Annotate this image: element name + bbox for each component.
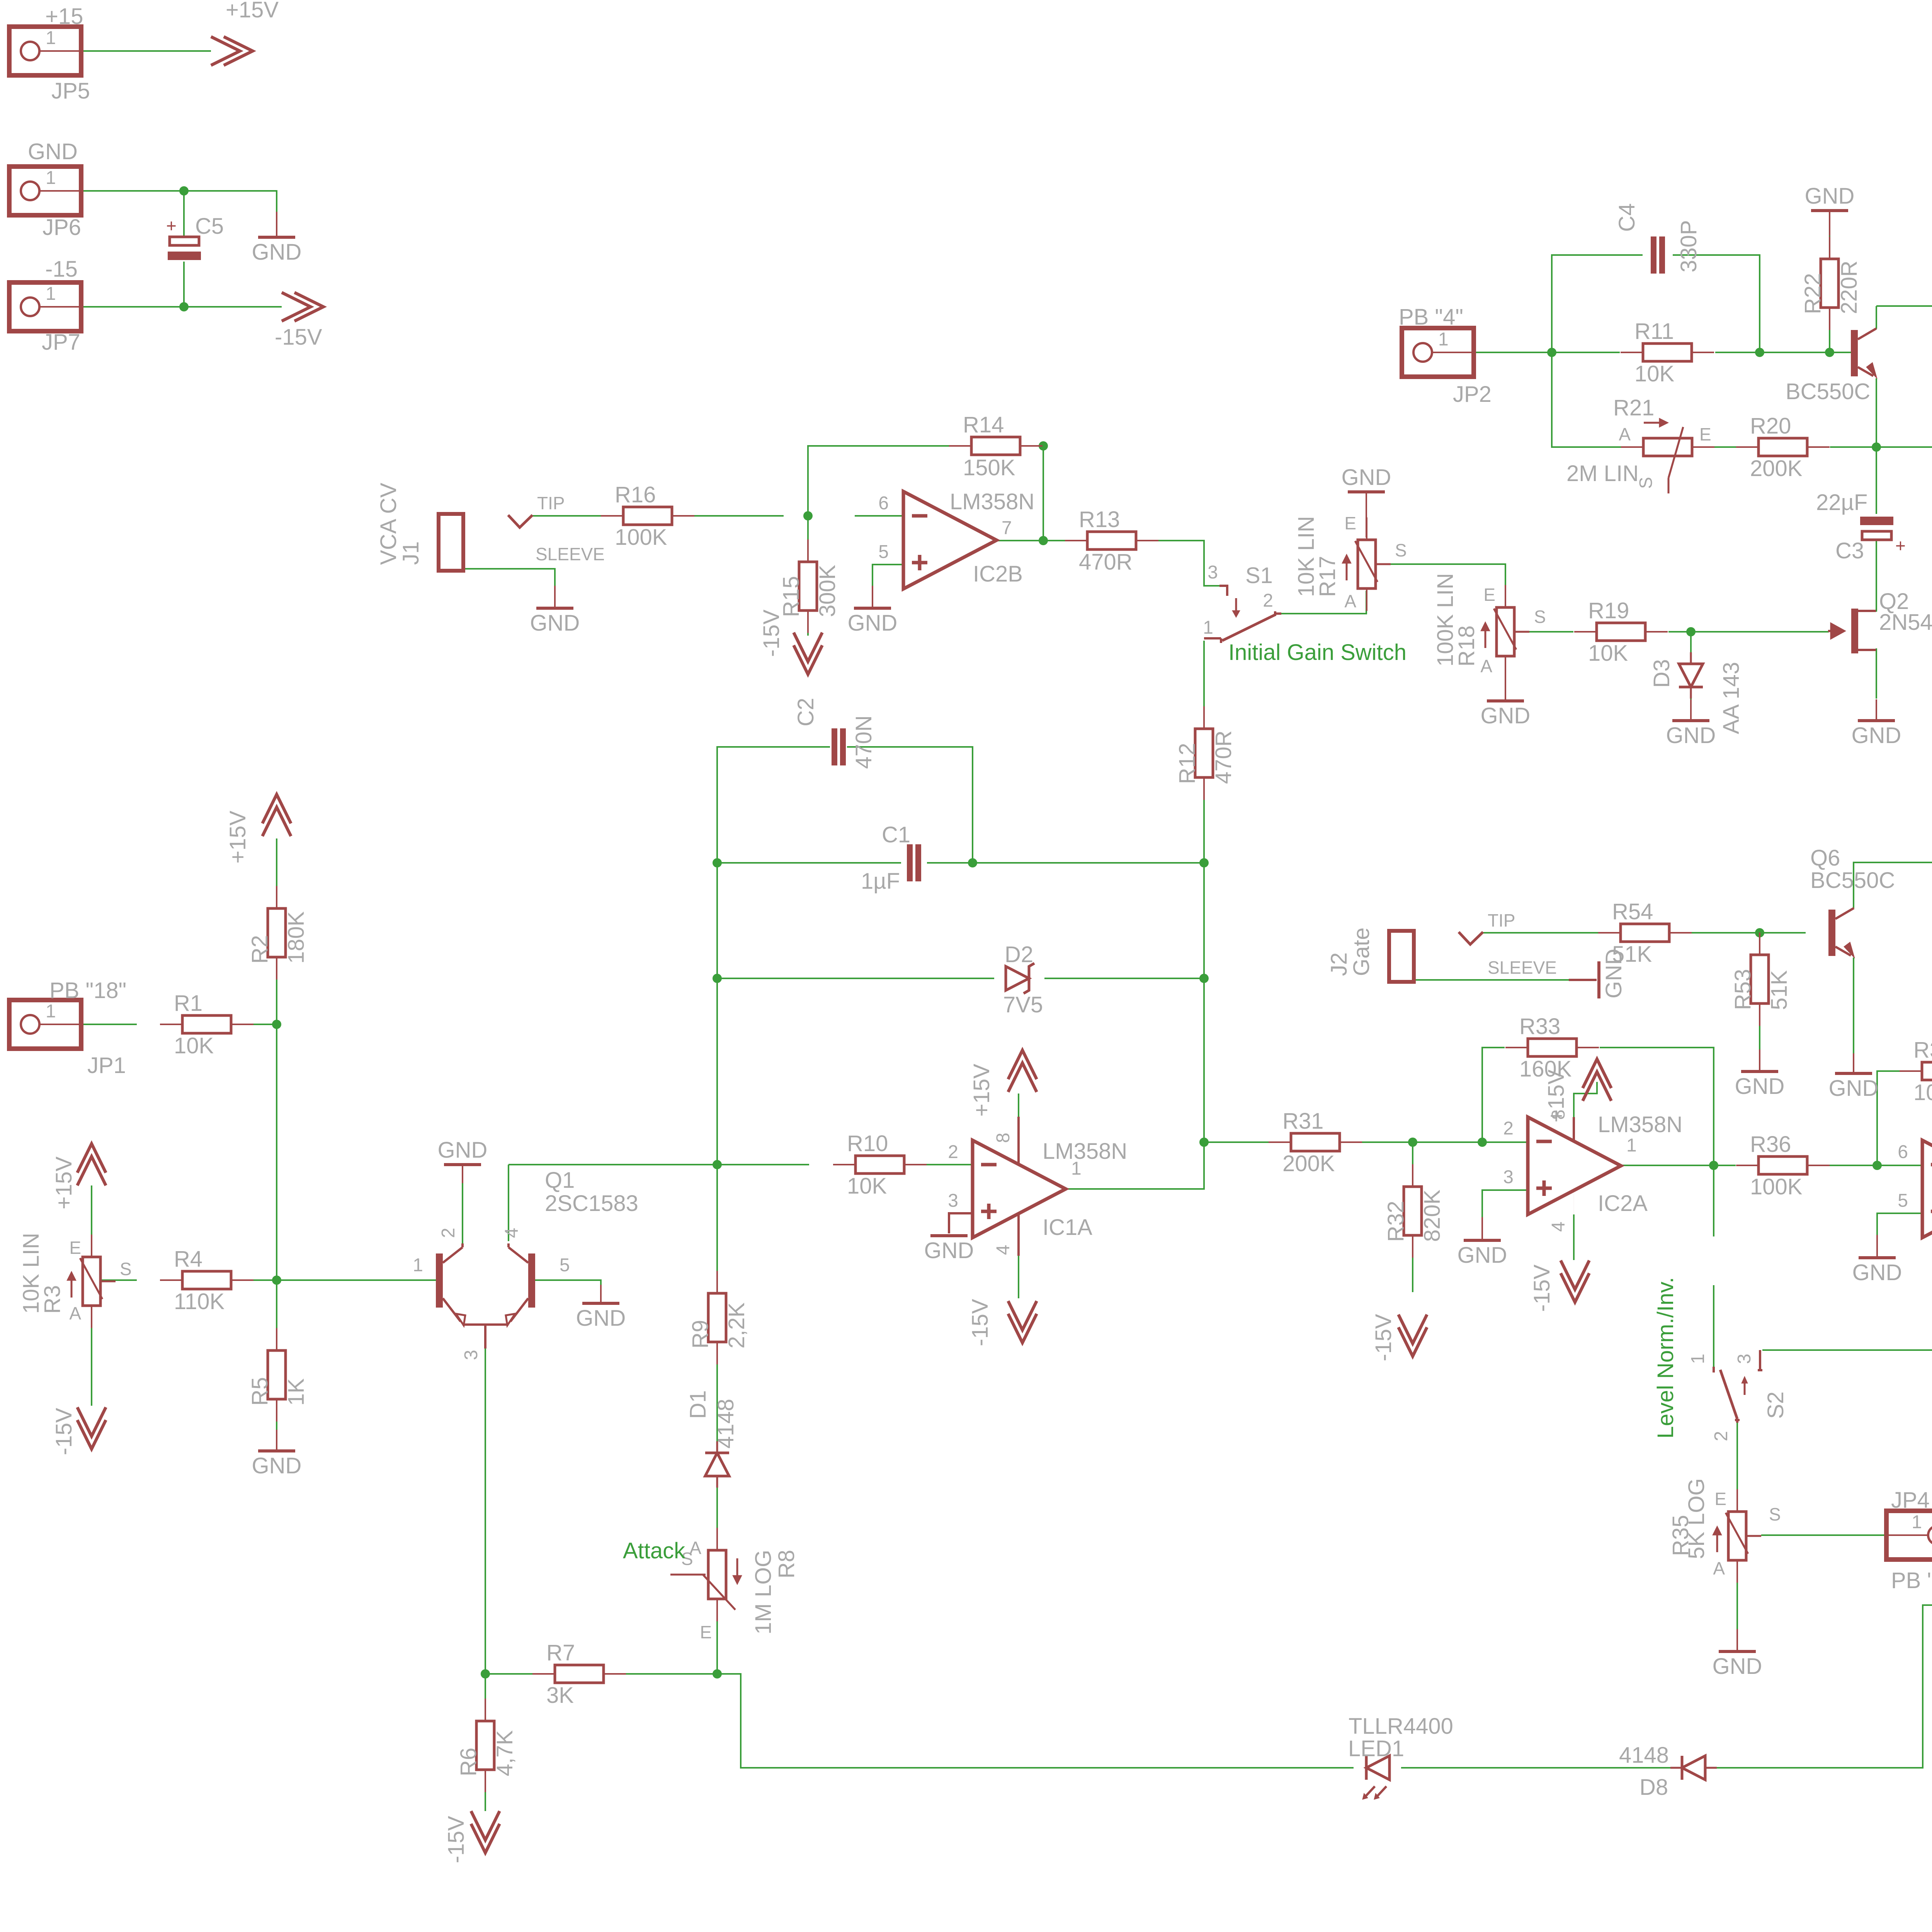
capacitor C4 <box>1651 236 1665 274</box>
svg-text:1: 1 <box>46 284 56 304</box>
wire C5 bottom pin <box>183 262 185 307</box>
power +15V IC2A <box>1583 1059 1611 1101</box>
wire R34 bottom to S1 pin1 <box>1713 1285 1714 1367</box>
wire R3 S to R4 <box>101 1279 137 1281</box>
resistor R10 <box>833 1156 927 1173</box>
svg-text:-15V: -15V <box>968 1299 993 1346</box>
junction <box>713 1160 722 1169</box>
switch S1 pin3 stub <box>1219 586 1227 596</box>
svg-text:AA 143: AA 143 <box>1719 662 1744 734</box>
ground J2 sleeve <box>1597 961 1600 998</box>
svg-text:10K: 10K <box>1634 361 1675 386</box>
svg-text:R11: R11 <box>1634 319 1674 344</box>
junction <box>272 1276 281 1285</box>
transistor Q1 <box>436 1243 535 1349</box>
wire R17 S to R18 E <box>1390 564 1505 607</box>
wire R18 S to R19 <box>1515 631 1573 633</box>
svg-text:E: E <box>1714 1489 1726 1509</box>
wire C2 left <box>717 747 830 863</box>
capacitor C1 <box>907 844 921 881</box>
svg-text:-15V: -15V <box>51 1408 77 1455</box>
svg-text:GND: GND <box>28 139 78 164</box>
svg-text:Attack: Attack <box>623 1538 685 1563</box>
svg-text:A: A <box>1480 656 1492 676</box>
svg-text:BC550C: BC550C <box>1810 868 1895 893</box>
svg-text:LM358N: LM358N <box>1043 1139 1127 1164</box>
wire JP6 to GND net <box>40 191 277 212</box>
svg-text:5: 5 <box>560 1255 570 1276</box>
power -15V IC1A <box>1008 1301 1037 1343</box>
resistor R37 <box>1900 1062 1932 1080</box>
diode D3 <box>1679 652 1703 699</box>
junction <box>481 1669 490 1679</box>
svg-text:6: 6 <box>1898 1142 1908 1162</box>
svg-text:R19: R19 <box>1588 598 1629 623</box>
wire R3 A to -15V <box>91 1306 92 1406</box>
svg-text:A: A <box>1713 1558 1725 1578</box>
wire R21 row <box>1552 352 1621 447</box>
power -15V <box>282 293 323 321</box>
wire out to R31 <box>1204 1141 1288 1143</box>
junction <box>179 302 189 311</box>
wire D2 rail left <box>717 978 994 979</box>
svg-text:S: S <box>1534 607 1546 627</box>
svg-text:2: 2 <box>1263 590 1273 611</box>
svg-text:C5: C5 <box>195 214 224 239</box>
wire R6 to -15V <box>485 1770 486 1811</box>
svg-text:GND: GND <box>1458 1243 1507 1268</box>
wire R2 to junction <box>276 956 277 1024</box>
resistor R54 <box>1598 924 1692 942</box>
wire IC1B pin5 hook <box>1877 1213 1922 1235</box>
svg-text:JP2: JP2 <box>1453 382 1492 407</box>
svg-text:+15: +15 <box>45 4 83 29</box>
svg-text:E: E <box>1699 424 1711 444</box>
junction <box>1408 1138 1417 1147</box>
svg-text:SLEEVE: SLEEVE <box>1488 957 1557 978</box>
wire D3 top <box>1690 632 1692 652</box>
svg-text:1: 1 <box>1203 617 1213 638</box>
resistor R9 <box>708 1271 726 1364</box>
svg-text:R4: R4 <box>174 1247 202 1272</box>
svg-text:100K LIN: 100K LIN <box>1433 573 1458 667</box>
svg-text:+15V: +15V <box>1544 1070 1569 1122</box>
power -15V R6 <box>471 1811 500 1853</box>
wire C2 right <box>847 747 973 863</box>
svg-text:+15V: +15V <box>51 1156 77 1209</box>
svg-text:GND: GND <box>924 1238 974 1263</box>
junction <box>1039 441 1048 451</box>
svg-text:6: 6 <box>878 493 889 514</box>
switch S1 <box>1204 598 1281 643</box>
wire J1 sleeve <box>463 569 555 586</box>
power -15V IC2A <box>1561 1260 1589 1302</box>
svg-text:330P: 330P <box>1676 220 1701 272</box>
wire R7 row <box>485 1673 532 1675</box>
wire IC2A out <box>1621 1165 1736 1166</box>
wire right rail C1 to out <box>1203 863 1205 1142</box>
wire C5 top pin <box>183 191 185 236</box>
svg-text:-15V: -15V <box>759 609 784 657</box>
ground <box>1713 1629 1762 1679</box>
capacitor C5 <box>168 237 201 260</box>
svg-text:220R: 220R <box>1837 260 1862 314</box>
svg-text:1: 1 <box>1071 1158 1082 1179</box>
diode D8 <box>1670 1756 1717 1780</box>
wire junction down to R9 <box>716 1165 718 1294</box>
svg-text:GND: GND <box>252 240 302 265</box>
wire Q2 source to GND <box>1876 648 1877 699</box>
svg-text:180K: 180K <box>284 911 309 964</box>
connector JP5 <box>9 27 81 75</box>
svg-text:R20: R20 <box>1750 413 1791 439</box>
svg-text:200K: 200K <box>1750 456 1803 481</box>
wire IC1A out <box>1066 1142 1204 1189</box>
svg-text:200K: 200K <box>1282 1151 1335 1176</box>
LED LED1 <box>1362 1756 1389 1799</box>
svg-text:JP1: JP1 <box>87 1053 126 1078</box>
svg-text:3: 3 <box>1207 562 1218 583</box>
wire R32 bottom to -15V <box>1412 1235 1413 1292</box>
svg-text:S: S <box>1395 540 1407 560</box>
svg-text:GND: GND <box>1713 1654 1762 1679</box>
wire C1 rail right <box>927 862 1204 864</box>
jack J2 <box>1327 927 1483 982</box>
transistor Q6 <box>1828 908 1855 958</box>
wire Q3 collector route <box>1876 306 1932 353</box>
power +15V <box>211 37 253 65</box>
svg-text:GND: GND <box>1481 703 1531 728</box>
svg-text:-15V: -15V <box>1371 1314 1396 1361</box>
svg-text:R21: R21 <box>1613 395 1654 420</box>
ground <box>1735 1049 1785 1099</box>
wire C1 rail left <box>717 862 901 864</box>
svg-text:10K LIN: 10K LIN <box>19 1233 44 1314</box>
svg-text:D3: D3 <box>1649 659 1674 688</box>
svg-text:GND: GND <box>848 611 898 636</box>
svg-text:PB "4": PB "4" <box>1399 304 1463 330</box>
svg-text:+: + <box>1895 536 1906 556</box>
svg-text:C4: C4 <box>1614 203 1639 232</box>
svg-text:R13: R13 <box>1079 507 1120 532</box>
power -15V R3 <box>77 1407 106 1449</box>
svg-text:A: A <box>1344 591 1356 611</box>
wire IC2A pin8 <box>1574 1082 1597 1117</box>
svg-text:GND: GND <box>1342 465 1391 490</box>
svg-text:150K: 150K <box>963 455 1015 480</box>
wire JP1 to R1 <box>39 1024 137 1025</box>
wire R22 bottom <box>1829 306 1830 352</box>
zener diode D2 <box>1006 963 1034 993</box>
resistor R19 <box>1574 623 1668 641</box>
resistor R31 <box>1269 1133 1362 1151</box>
wire R33 loop right <box>1600 1048 1714 1165</box>
wire left rail down <box>716 863 718 978</box>
capacitor C2 <box>832 728 846 765</box>
ground <box>924 1236 974 1263</box>
diode D1 <box>705 1441 729 1488</box>
svg-text:1: 1 <box>1912 1512 1922 1532</box>
svg-text:BC550C: BC550C <box>1786 379 1870 404</box>
svg-text:-15V: -15V <box>275 325 322 350</box>
wire IC2B pin5 hook <box>872 565 903 586</box>
wire R36 to junction <box>1830 1165 1922 1166</box>
junction <box>968 858 977 867</box>
wire R16 to IC2B pin6 <box>855 515 903 517</box>
svg-text:IC1A: IC1A <box>1043 1215 1092 1240</box>
junction <box>1709 1161 1718 1170</box>
wire D3 bottom to GND <box>1690 699 1692 699</box>
svg-text:GND: GND <box>438 1138 488 1163</box>
svg-text:+: + <box>166 216 177 236</box>
op-amp IC1B <box>1922 1140 1932 1238</box>
svg-text:300K: 300K <box>815 565 840 617</box>
wire junction down to R4 row <box>276 1024 277 1280</box>
svg-text:GND: GND <box>530 611 580 636</box>
junction <box>803 511 813 520</box>
junction <box>179 186 189 196</box>
ground <box>1805 184 1855 236</box>
J2 sleeve gnd stub <box>1569 979 1597 981</box>
svg-text:4,7K: 4,7K <box>492 1730 517 1776</box>
svg-text:GND: GND <box>1852 723 1901 748</box>
junction <box>1199 1138 1209 1147</box>
potentiometer R18 <box>1481 585 1529 679</box>
power -15V R15 <box>794 633 822 674</box>
wire junction to R10 <box>717 1164 809 1165</box>
wire R32 top <box>1412 1142 1413 1187</box>
wire +15V to R2 <box>276 838 277 909</box>
resistor R36 <box>1736 1156 1830 1174</box>
svg-text:D8: D8 <box>1639 1775 1668 1800</box>
wire Q6 collector up <box>1854 862 1932 917</box>
svg-text:E: E <box>1344 513 1356 533</box>
svg-text:1: 1 <box>46 1001 56 1022</box>
connector JP1 <box>9 1000 81 1049</box>
wire Q1 pin4 to junction <box>509 1164 717 1165</box>
resistor R14 <box>949 437 1043 455</box>
resistor R53 <box>1751 932 1769 1026</box>
wire R19 to junction <box>1668 631 1829 633</box>
svg-text:R8: R8 <box>774 1550 799 1578</box>
svg-text:2M LIN: 2M LIN <box>1566 461 1639 486</box>
transistor Q3 <box>1851 328 1877 379</box>
wire Q1 pin3 down <box>485 1325 486 1674</box>
junction <box>1686 627 1696 636</box>
wire R33 loop left <box>1482 1048 1505 1142</box>
svg-text:JP4: JP4 <box>1891 1488 1930 1513</box>
resistor R13 <box>1065 532 1158 549</box>
op-amp IC2B <box>903 492 997 589</box>
wire IC2A pin3 hook <box>1482 1190 1528 1217</box>
IC1A pin8 green <box>1018 1094 1019 1117</box>
svg-text:470R: 470R <box>1211 730 1236 784</box>
wire R4 to junction <box>230 1279 277 1281</box>
switch S2 <box>1714 1367 1762 1423</box>
svg-text:5K LOG: 5K LOG <box>1684 1478 1709 1559</box>
svg-text:JP6: JP6 <box>43 215 81 240</box>
svg-text:2: 2 <box>1503 1118 1514 1139</box>
svg-text:4148: 4148 <box>713 1399 738 1449</box>
svg-text:1M LOG: 1M LOG <box>751 1550 776 1634</box>
svg-text:Q6: Q6 <box>1810 845 1840 871</box>
svg-text:-15V: -15V <box>444 1816 469 1863</box>
svg-text:R5: R5 <box>247 1377 272 1406</box>
svg-text:4148: 4148 <box>1619 1743 1669 1768</box>
wire JP7 to -15V <box>40 306 282 308</box>
wire R3 +15V <box>91 1185 92 1257</box>
svg-text:Level Norm./Inv.: Level Norm./Inv. <box>1653 1277 1678 1439</box>
ground <box>1458 1217 1507 1268</box>
svg-text:10K LIN: 10K LIN <box>1294 516 1319 597</box>
connector JP7 <box>9 282 81 331</box>
jack J1 <box>376 483 532 571</box>
ground <box>1666 699 1716 748</box>
svg-text:1: 1 <box>46 28 56 48</box>
IC1A pin4 wire <box>1017 1213 1020 1256</box>
wire R35 S to JP4 <box>1761 1534 1928 1536</box>
svg-text:1: 1 <box>413 1255 423 1276</box>
svg-text:820K: 820K <box>1420 1189 1445 1242</box>
svg-text:3: 3 <box>1503 1167 1514 1187</box>
svg-text:51K: 51K <box>1612 942 1652 967</box>
ground <box>1852 699 1901 748</box>
svg-text:GND: GND <box>576 1306 626 1331</box>
wire R13 to S1 pin3 <box>1136 541 1219 586</box>
power +15V IC1A <box>1008 1050 1037 1092</box>
svg-text:-15V: -15V <box>1529 1264 1554 1312</box>
wire Q1 pin2 to GND <box>462 1183 463 1244</box>
potentiometer R8 <box>670 1528 742 1621</box>
svg-text:2: 2 <box>948 1142 958 1162</box>
capacitor C3 <box>1860 517 1893 540</box>
IC2A pin4 wire <box>1573 1190 1574 1214</box>
svg-text:SLEEVE: SLEEVE <box>536 544 605 564</box>
wire junction down to R6 <box>485 1674 486 1721</box>
switch S2 pin3 hook <box>1759 1350 1761 1370</box>
resistor R11 <box>1621 344 1714 361</box>
svg-text:3: 3 <box>948 1190 958 1211</box>
potentiometer R35 <box>1713 1489 1761 1583</box>
svg-text:LM358N: LM358N <box>1598 1112 1682 1137</box>
resistor R20 <box>1736 438 1830 456</box>
svg-text:4: 4 <box>993 1245 1014 1255</box>
svg-text:GND: GND <box>1852 1260 1902 1285</box>
ground <box>1852 1235 1902 1285</box>
svg-text:R32: R32 <box>1383 1201 1408 1242</box>
wire R14 right to output <box>1043 446 1044 541</box>
resistor R4 <box>160 1271 253 1289</box>
svg-text:S2: S2 <box>1763 1391 1788 1419</box>
svg-text:22µF: 22µF <box>1816 490 1867 515</box>
svg-text:470N: 470N <box>851 715 876 769</box>
svg-text:100K: 100K <box>1913 1080 1932 1105</box>
wire S1 pin2 to R17 A <box>1281 591 1366 614</box>
resistor R33 <box>1505 1039 1599 1056</box>
resistor R7 <box>532 1665 626 1683</box>
op-amp IC2A <box>1528 1117 1621 1214</box>
JFET Q2 <box>1828 609 1876 653</box>
svg-text:A: A <box>1619 424 1631 444</box>
wire junction up to R14 rail <box>808 446 949 516</box>
connector JP2 <box>1402 328 1474 377</box>
wire R11 to junctions <box>1715 352 1851 353</box>
svg-text:8: 8 <box>993 1133 1014 1143</box>
wire left rail to R10 junction <box>716 978 718 1165</box>
ground <box>252 212 302 265</box>
wire R22 top to GND <box>1829 236 1830 260</box>
wire IC2B out to R13 <box>997 540 1088 541</box>
svg-text:10K: 10K <box>1588 641 1628 666</box>
svg-text:E: E <box>700 1622 712 1642</box>
svg-text:TIP: TIP <box>1488 910 1515 930</box>
wire R54 to junction <box>1692 932 1806 934</box>
resistor R2 <box>268 886 286 980</box>
svg-text:C1: C1 <box>882 822 910 847</box>
ground <box>438 1138 488 1183</box>
svg-text:Q1: Q1 <box>545 1168 575 1193</box>
svg-text:J1: J1 <box>398 541 423 565</box>
ground <box>1829 1053 1879 1101</box>
power +15V R3 <box>77 1144 106 1185</box>
wire J2 sleeve to GND <box>1413 979 1569 981</box>
svg-text:E: E <box>69 1238 81 1258</box>
junction <box>1547 348 1556 357</box>
wire JP5 to +15V <box>40 50 211 52</box>
wire R8 E down to junction <box>716 1599 718 1674</box>
potentiometer R21 <box>1621 418 1714 493</box>
junction <box>1825 348 1834 357</box>
wire R5 to GND <box>276 1399 277 1430</box>
IC1A pin8 wire <box>1017 1117 1020 1164</box>
junction <box>713 1669 722 1679</box>
svg-text:470R: 470R <box>1079 549 1133 575</box>
svg-text:1: 1 <box>1688 1354 1708 1364</box>
svg-text:R16: R16 <box>615 482 656 507</box>
svg-text:5: 5 <box>878 542 889 562</box>
ground <box>1481 678 1531 728</box>
svg-text:10K: 10K <box>174 1033 214 1058</box>
svg-text:R14: R14 <box>963 412 1004 437</box>
wire S2 pin2 to R35 E <box>1736 1421 1738 1512</box>
ground <box>530 586 580 636</box>
wire J1 tip to R16 <box>532 515 784 517</box>
junction <box>1755 928 1764 937</box>
wire R21 E to R20 <box>1714 446 1736 448</box>
resistor R12 <box>1195 706 1213 800</box>
junction <box>272 1020 281 1029</box>
wire junction to LED row <box>717 1674 1354 1768</box>
junction <box>1872 1161 1882 1170</box>
svg-text:1µF: 1µF <box>861 869 900 894</box>
wire LED1 to D8 <box>1401 1767 1671 1769</box>
junction <box>1872 442 1881 452</box>
connector JP6 <box>9 167 81 215</box>
svg-text:1K: 1K <box>284 1378 309 1406</box>
svg-text:D2: D2 <box>1005 942 1033 967</box>
wire J2 tip to R54 <box>1483 932 1598 934</box>
svg-text:GND: GND <box>1666 723 1716 748</box>
svg-text:R37: R37 <box>1913 1037 1932 1063</box>
svg-text:TLLR4400: TLLR4400 <box>1349 1714 1453 1739</box>
wire Q3 collector up <box>1876 306 1877 329</box>
svg-text:Initial Gain Switch: Initial Gain Switch <box>1228 640 1406 665</box>
wire C4 right <box>1673 255 1760 352</box>
IC1A pin3 hook <box>949 1213 973 1233</box>
ground <box>848 586 898 636</box>
power +15V R2 <box>262 794 291 836</box>
svg-text:IC2B: IC2B <box>973 561 1023 587</box>
